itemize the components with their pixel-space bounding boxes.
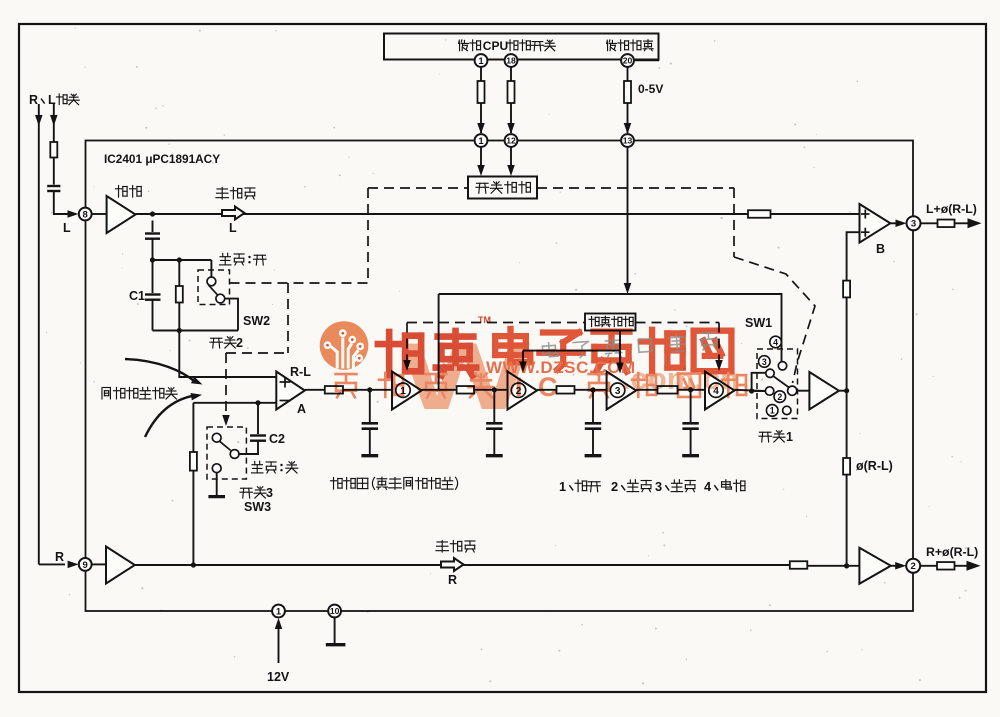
- label: switch 3: [240, 487, 266, 498]
- svg-text:18: 18: [506, 56, 516, 66]
- svg-text:A: A: [297, 402, 306, 416]
- remote CPU control box: [384, 34, 659, 60]
- wire into pin 8: [54, 191, 70, 214]
- node IC pin 11: [475, 134, 488, 147]
- contact 3: [766, 369, 774, 377]
- label: switch 1: [759, 431, 785, 442]
- svg-text:2: 2: [611, 479, 618, 494]
- svg-text:4: 4: [773, 337, 778, 347]
- op-amp phase shifter 2: [508, 372, 538, 410]
- wire phi(R-L) distribution: [847, 232, 860, 566]
- wire with arrow output R: [955, 565, 968, 567]
- svg-text:I: I: [515, 372, 523, 402]
- wire tap up to SW1 feed line: [438, 294, 440, 390]
- label: mono off: [252, 461, 298, 473]
- svg-text:IC2401 μPC1891ACY: IC2401 μPC1891ACY: [104, 152, 220, 166]
- svg-text:8: 8: [83, 209, 88, 220]
- switch SW3: [212, 433, 221, 442]
- capacitor to ground 4: [690, 390, 692, 422]
- op-amp phase shifter 3: [607, 372, 637, 410]
- position label 1: [766, 405, 778, 417]
- svg-text:2: 2: [236, 336, 243, 350]
- node IC pin 12: [505, 134, 518, 147]
- svg-text:4: 4: [704, 479, 712, 494]
- contact 4: [778, 362, 786, 370]
- op-amp phase shifter 1: [392, 372, 422, 410]
- wire SW2 rail down to amp A + input: [179, 331, 276, 378]
- dashed wire to shifter 1: [407, 322, 585, 324]
- label: effect control: [589, 316, 633, 326]
- svg-text:R-L: R-L: [290, 365, 311, 379]
- svg-text:SW3: SW3: [244, 500, 271, 514]
- capacitor C1: [152, 260, 154, 293]
- wire pin20 to IC pin 13 with resistor: [627, 67, 629, 81]
- label: mono on: [220, 253, 267, 265]
- node pin 18 of CPU: [505, 54, 518, 67]
- capacitor to ground 1: [369, 390, 371, 422]
- wire buffer to node: [839, 390, 847, 392]
- svg-text:C: C: [538, 372, 558, 402]
- effect control box: [585, 314, 636, 331]
- dashed box around SW1: [757, 349, 798, 419]
- svg-text:2: 2: [777, 392, 782, 402]
- wire with arrow into IC pin 12: [510, 103, 512, 133]
- svg-text:3: 3: [655, 479, 662, 494]
- svg-text:1: 1: [786, 430, 793, 444]
- wire R input turn into pin 9: [39, 563, 65, 565]
- plus mark amp B upper input: [861, 213, 870, 215]
- contact 2: [765, 387, 773, 395]
- main signal L marker arrow: [222, 207, 245, 220]
- wire pin13 down with arrow onto tap line: [627, 147, 629, 286]
- node IC pin 9: [79, 558, 92, 571]
- node IC pin 10: [328, 605, 341, 618]
- wire: [343, 389, 392, 391]
- curved arrow upper: [125, 359, 194, 381]
- label: phase shifter (generates indirect sound): [331, 477, 458, 489]
- node IC pin 3: [907, 216, 921, 230]
- watermark gray script electronics product world: [542, 331, 717, 361]
- dashed box around SW2: [198, 270, 230, 305]
- dashed control wire to SW2: [368, 187, 468, 189]
- label: main signal R: [436, 541, 475, 553]
- resistor phi(R-L) lower: [843, 458, 850, 475]
- plus mark amp B lower input: [861, 231, 870, 233]
- svg-text:12: 12: [506, 136, 516, 146]
- svg-text:R: R: [29, 93, 38, 107]
- resistor on L input: [50, 142, 57, 158]
- wire IC pin12 to switch control: [510, 147, 512, 169]
- svg-text:3: 3: [911, 219, 916, 230]
- wire IC pin11 to switch control: [480, 147, 482, 169]
- svg-text:ø(R-L): ø(R-L): [856, 459, 893, 473]
- svg-text:10: 10: [330, 606, 340, 616]
- capacitor to ground 2: [493, 390, 495, 422]
- resistor on pin20 line: [624, 81, 631, 103]
- wire output R: [920, 565, 937, 567]
- resistor output R: [937, 562, 955, 570]
- wire SW3 to ground: [216, 473, 218, 495]
- resistor chain 4: [658, 386, 678, 394]
- op-amp output buffer: [809, 372, 839, 409]
- curved arrow lower: [145, 396, 193, 437]
- svg-text:1: 1: [478, 136, 484, 147]
- label: remote CPU surround switch: [459, 40, 481, 51]
- svg-text:B: B: [876, 242, 885, 256]
- switch pole: [788, 386, 797, 395]
- node pin 1 of CPU: [475, 54, 488, 67]
- svg-text:CPU: CPU: [483, 39, 508, 53]
- wire main L signal line: [136, 213, 749, 215]
- node pin 20 of CPU: [621, 54, 634, 67]
- svg-text:13: 13: [623, 136, 633, 146]
- resistor output L: [938, 220, 955, 228]
- resistor chain 3: [557, 386, 575, 394]
- svg-text:C2: C2: [269, 432, 285, 446]
- svg-text:1: 1: [478, 56, 484, 67]
- wire L input with arrow: [53, 104, 55, 142]
- dashed box around SW3: [207, 427, 246, 479]
- wire to coupling cap: [53, 158, 55, 185]
- label: switch control: [476, 182, 530, 194]
- resistor chain 2: [457, 386, 474, 394]
- position label 2: [774, 391, 786, 403]
- resistor before output amp R: [790, 561, 808, 569]
- IC block outline IC2401: [86, 141, 914, 612]
- svg-text:SW1: SW1: [745, 316, 772, 330]
- svg-text:C1: C1: [129, 289, 145, 303]
- dashed wire to shifter 4: [636, 322, 720, 324]
- wire: [537, 389, 557, 391]
- op-amp output R: [859, 548, 890, 584]
- node IC pin 2: [906, 559, 920, 573]
- wire: [636, 389, 657, 391]
- position label 4: [770, 336, 782, 348]
- svg-text:SW2: SW2: [243, 314, 270, 328]
- wire amp A - input: [193, 402, 276, 404]
- wire SW2 bottom rail: [153, 330, 239, 332]
- wire with arrow into IC pin: [480, 103, 482, 133]
- wire left branch down to R line: [192, 403, 194, 565]
- switch SW1 input junction: [749, 388, 754, 393]
- svg-text:R: R: [55, 550, 64, 564]
- wire SW2 top rail: [153, 259, 212, 261]
- svg-text:L: L: [48, 93, 56, 107]
- wire R input vertical: [38, 104, 40, 564]
- op-amp A: [276, 372, 305, 410]
- ground below pin 10: [326, 643, 346, 646]
- label: surround: [116, 186, 142, 198]
- tap line to SW1 position 4: [439, 294, 782, 362]
- wire to output amp R: [807, 565, 866, 567]
- op-amp surround L: [92, 213, 107, 215]
- label: switch 2: [210, 337, 236, 348]
- plus mark amp A: [280, 381, 291, 383]
- wire with arrow output L: [955, 222, 969, 224]
- contact 1: [783, 406, 791, 414]
- wire stub from pin 20 to box corner: [635, 60, 658, 61]
- capacitor on L input: [47, 185, 60, 187]
- resistor on pin1 line: [478, 81, 485, 103]
- svg-text:3: 3: [615, 386, 621, 397]
- svg-text:TM: TM: [478, 315, 491, 325]
- resistor in SW2 branch: [178, 260, 180, 286]
- svg-text:1: 1: [559, 479, 566, 494]
- position label 3: [759, 356, 771, 368]
- arrow into pin 2: [895, 562, 906, 570]
- svg-text:L: L: [63, 221, 71, 235]
- capacitor to ground 3: [592, 390, 594, 422]
- watermark logo circle: [320, 321, 369, 370]
- svg-text:R+ø(R-L): R+ø(R-L): [926, 545, 978, 559]
- resistor on pin18 line: [508, 81, 515, 103]
- wire: [474, 389, 508, 391]
- dashed control wire to SW1: [537, 187, 734, 189]
- capacitor below L line junction: [152, 221, 154, 233]
- svg-text:0-5V: 0-5V: [638, 82, 663, 96]
- wire main R signal line: [135, 564, 790, 566]
- label: main signal L: [216, 188, 255, 200]
- svg-text:L: L: [229, 221, 237, 235]
- op-amp phase shifter 4: [705, 372, 735, 410]
- svg-text:WWW.DZSC.COM: WWW.DZSC.COM: [486, 358, 636, 377]
- resistor on branch: [190, 452, 197, 471]
- node IC pin 1 supply: [272, 605, 285, 618]
- wire resistor to amp B: [771, 213, 867, 215]
- watermark slogan global largest IC purchase site: [336, 374, 357, 397]
- wire to contact 3: [752, 373, 766, 391]
- svg-text:1: 1: [276, 606, 282, 617]
- wire with tap: [422, 389, 457, 391]
- resistor before amp B: [748, 210, 771, 218]
- wire amp A output: [305, 389, 325, 391]
- label: indirect sound input: [102, 387, 177, 399]
- svg-text:12V: 12V: [267, 670, 290, 684]
- svg-text:3: 3: [762, 357, 767, 367]
- wire pin1 to IC pin 11 with resistor: [480, 67, 482, 81]
- capacitor C2: [257, 403, 259, 434]
- main signal R marker arrow: [441, 558, 464, 571]
- wire output L: [921, 222, 938, 224]
- label: remote effect: [607, 40, 653, 51]
- svg-text:3: 3: [266, 486, 273, 500]
- watermark big text electronics market: [495, 329, 731, 372]
- svg-text:2: 2: [911, 561, 916, 572]
- wire: [575, 389, 607, 391]
- svg-text:9: 9: [83, 560, 88, 571]
- op-amp surround R: [92, 563, 106, 565]
- wire to SW1: [735, 390, 766, 391]
- switch lever: [774, 376, 790, 387]
- wire pin18 to IC pin 12 with resistor: [510, 67, 512, 81]
- node IC pin 13: [621, 134, 634, 147]
- resistor chain 1: [325, 386, 343, 394]
- node IC pin 8: [79, 208, 92, 221]
- minus mark amp A: [280, 400, 291, 402]
- wire: [678, 389, 706, 391]
- ground below SW3: [208, 495, 225, 498]
- svg-text:1: 1: [770, 406, 775, 416]
- wire pole to buffer amp: [797, 390, 810, 392]
- wire to contact 2: [752, 390, 766, 392]
- switch control box: [468, 177, 537, 199]
- svg-text:L+ø(R-L): L+ø(R-L): [926, 202, 977, 216]
- control wire to shifter 2 and 3: [619, 331, 621, 351]
- op-amp B: [860, 204, 891, 243]
- watermark big text weiku: [378, 331, 476, 376]
- switch SW2: [210, 260, 212, 277]
- resistor to amp B feedback: [843, 281, 850, 298]
- dashed control wire branch to SW3: [287, 283, 289, 353]
- wire pin 10 to ground: [334, 617, 336, 643]
- svg-text:20: 20: [623, 56, 633, 66]
- svg-text:R: R: [448, 573, 457, 587]
- arrow into pin 3: [896, 220, 907, 228]
- wire with arrow into IC pin 13: [627, 103, 629, 133]
- arrow 12V into pin 1: [275, 618, 283, 629]
- node junction on L line: [150, 211, 155, 216]
